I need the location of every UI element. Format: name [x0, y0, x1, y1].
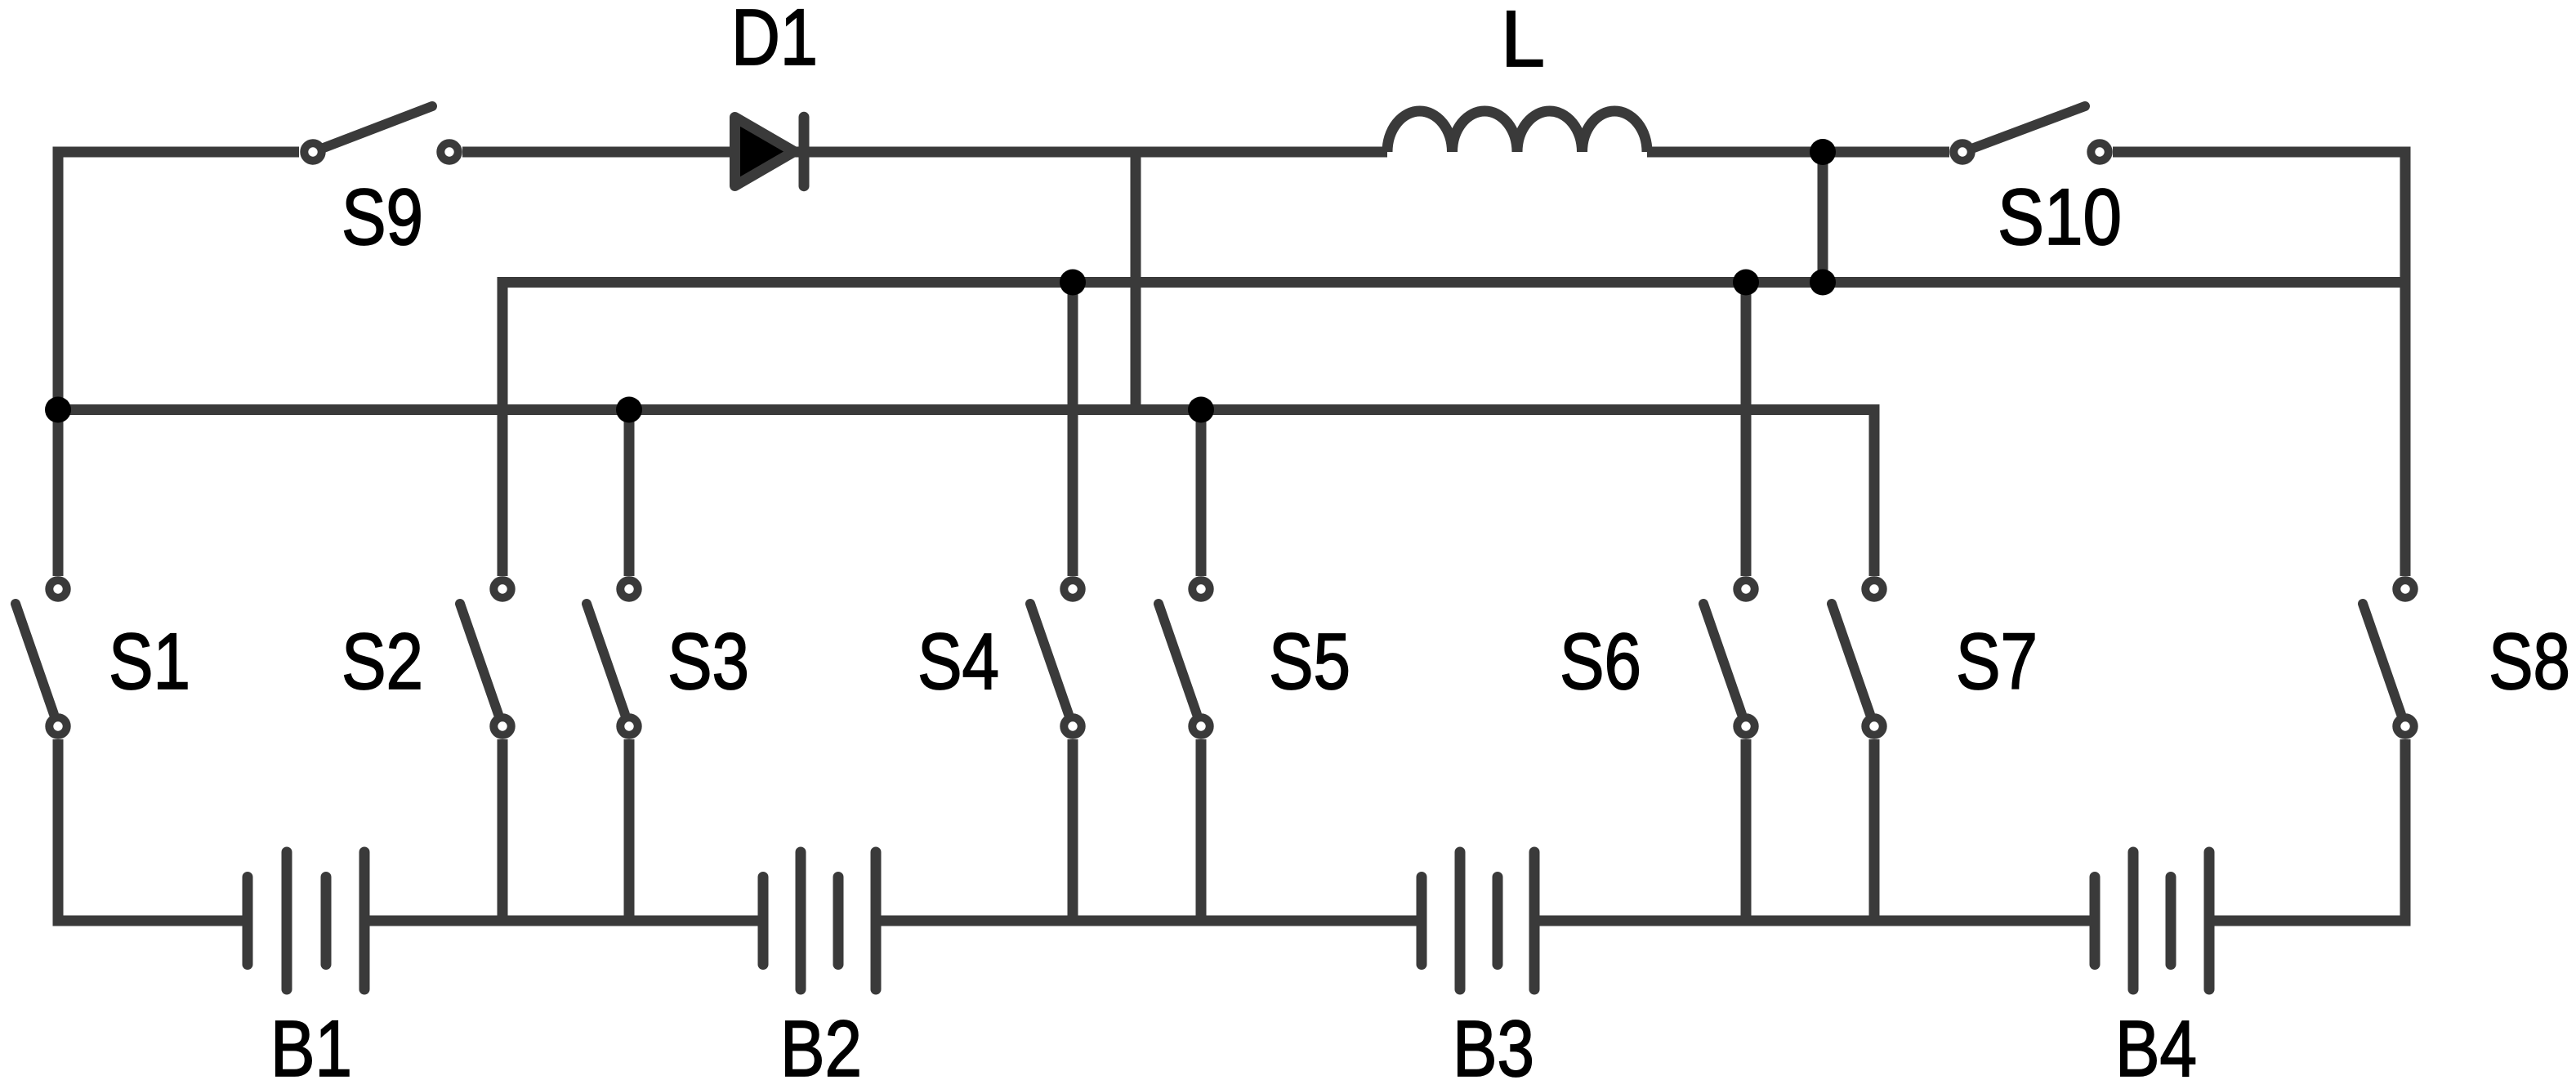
battery B2: [763, 852, 876, 989]
wire S6 lower riser: [1741, 739, 1752, 921]
wire from top bus down to middle bus (node between D1 and L): [1131, 152, 1141, 410]
wire from top node down to upper bus: [1818, 152, 1828, 283]
wire top-right corner and right vertical upper segment: [2113, 152, 2405, 576]
wire S4 riser: [1068, 283, 1078, 577]
svg-text:B2: B2: [780, 1004, 862, 1089]
wire bottom bus B1 to B2: [364, 916, 763, 926]
wire S3 lower riser: [624, 739, 635, 921]
switch S6: [1703, 580, 1755, 734]
switch S10: [1953, 106, 2108, 161]
wire upper bus (second horizontal) with S2 riser: [502, 283, 2405, 577]
svg-text:S3: S3: [667, 617, 749, 706]
node left vertical / middle bus: [45, 397, 71, 423]
svg-text:S2: S2: [342, 617, 423, 706]
svg-text:S10: S10: [1998, 172, 2122, 261]
diode D1: [735, 117, 805, 185]
wire S5 lower riser: [1196, 739, 1207, 921]
svg-text:B3: B3: [1453, 1004, 1534, 1089]
switch S1: [16, 580, 67, 734]
wire top bus from S9 to inductor: [462, 147, 1387, 158]
svg-text:L: L: [1501, 0, 1545, 83]
battery B3: [1422, 852, 1534, 989]
switch S3: [587, 580, 638, 734]
svg-text:S4: S4: [917, 617, 999, 706]
battery B4: [2095, 852, 2209, 989]
switch S4: [1030, 580, 1082, 734]
svg-text:B4: B4: [2115, 1004, 2197, 1089]
switch S2: [460, 580, 511, 734]
svg-text:S6: S6: [1560, 617, 1641, 706]
wire bottom bus B4 to bottom-right corner and S8 lower riser: [2209, 739, 2405, 921]
node S3 riser / middle bus: [616, 397, 642, 423]
node inductor drop / upper bus: [1810, 270, 1836, 296]
node S5 riser / middle bus: [1188, 397, 1214, 423]
wire bottom bus B2 to B3: [876, 916, 1422, 926]
node S4 riser / upper bus: [1060, 270, 1086, 296]
wire S2 lower riser: [498, 739, 508, 921]
wire from inductor to S10: [1647, 147, 1949, 158]
wire bottom bus B3 to B4: [1534, 916, 2095, 926]
wire S1 lower riser and bottom-left corner: [58, 739, 243, 921]
wire middle bus (third horizontal) with S7 riser: [58, 410, 1874, 577]
svg-text:D1: D1: [731, 0, 818, 82]
svg-text:S1: S1: [109, 617, 190, 706]
wire S4 lower riser: [1068, 739, 1078, 921]
wire S6 riser: [1741, 283, 1752, 577]
inductor L: [1387, 111, 1647, 152]
battery B1: [248, 852, 364, 989]
wire S3 riser: [624, 410, 635, 577]
switch S8: [2363, 580, 2414, 734]
svg-text:B1: B1: [270, 1004, 352, 1089]
wire top-left corner and left vertical upper segment: [58, 152, 299, 576]
wire S5 riser: [1196, 410, 1207, 577]
svg-text:S5: S5: [1269, 617, 1351, 706]
switch S7: [1832, 580, 1883, 734]
switch S5: [1159, 580, 1210, 734]
node S6 riser / upper bus: [1733, 270, 1759, 296]
wire S7 lower riser: [1869, 739, 1880, 921]
svg-text:S7: S7: [1956, 617, 2038, 706]
svg-text:S8: S8: [2489, 617, 2570, 706]
switch S9: [304, 106, 458, 161]
svg-text:S9: S9: [342, 172, 423, 261]
node at inductor output (top): [1810, 139, 1836, 165]
